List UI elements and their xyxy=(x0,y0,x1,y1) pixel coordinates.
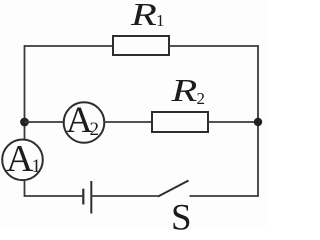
svg-text:2: 2 xyxy=(90,119,100,140)
wire battery to switch xyxy=(91,195,158,197)
wire top-right segment xyxy=(169,45,258,47)
svg-text:1: 1 xyxy=(156,11,165,30)
battery negative plate (short) xyxy=(82,189,84,205)
wire top-left segment xyxy=(25,45,114,47)
wire left vertical lower xyxy=(24,180,26,197)
wire middle branch left (junction to A2) xyxy=(25,121,65,123)
svg-text:R: R xyxy=(170,74,197,109)
node junction right xyxy=(254,118,262,126)
wire left vertical upper xyxy=(24,45,26,139)
switch S blade xyxy=(158,181,189,197)
wire switch contact to bottom-right corner xyxy=(190,195,259,197)
resistor R1 xyxy=(113,36,169,55)
svg-text:A: A xyxy=(6,138,34,180)
svg-text:R: R xyxy=(130,0,157,33)
ammeter A2 xyxy=(64,100,105,143)
wire right vertical xyxy=(257,45,259,196)
ammeter A1 xyxy=(2,138,43,180)
svg-text:2: 2 xyxy=(197,89,206,108)
wire bottom-left segment xyxy=(25,195,84,197)
wire A2 to R2 xyxy=(104,121,152,123)
svg-text:S: S xyxy=(171,198,192,231)
battery positive plate (long) xyxy=(90,181,92,214)
node junction left xyxy=(20,118,29,127)
wire R2 to right junction xyxy=(208,121,258,123)
svg-text:1: 1 xyxy=(32,156,42,177)
resistor R2 xyxy=(152,112,208,132)
